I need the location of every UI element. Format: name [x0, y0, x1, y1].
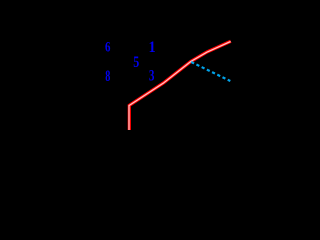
svg-text:3: 3: [149, 67, 155, 84]
red curve highlight core: [129, 42, 231, 131]
red curve: [129, 41, 231, 130]
svg-text:6: 6: [105, 38, 111, 55]
dashed extrapolation line: [191, 62, 230, 81]
svg-text:5: 5: [133, 54, 139, 72]
svg-text:1: 1: [149, 40, 156, 57]
svg-text:8: 8: [105, 67, 110, 85]
